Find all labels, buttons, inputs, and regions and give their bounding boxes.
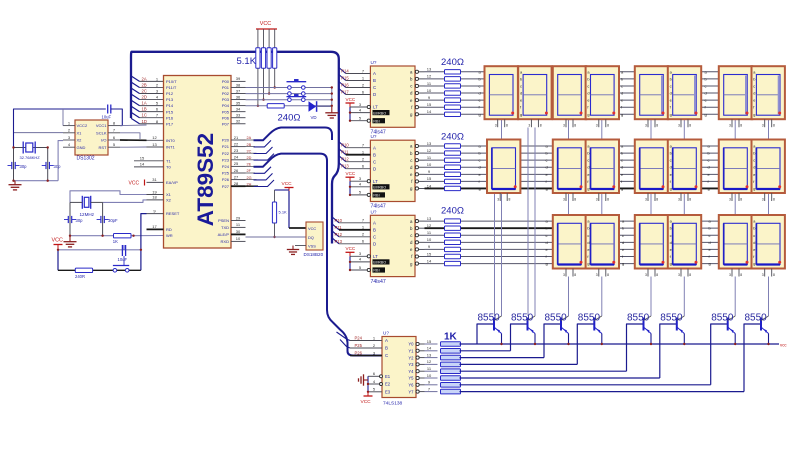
resistor 240ohm e row3 — [445, 247, 461, 251]
wire BCD input P11 U2 — [339, 149, 346, 155]
svg-text:3: 3 — [563, 124, 565, 128]
pin output Y1 74LS138 — [416, 349, 419, 352]
wire segment g row1 — [425, 113, 784, 115]
wire enable pins 74LS138 — [367, 376, 369, 392]
svg-text:e: e — [479, 98, 481, 103]
svg-text:74ls47: 74ls47 — [371, 279, 386, 285]
resistor 240ohm f row3 — [445, 254, 461, 258]
svg-text:I/O: I/O — [101, 138, 106, 143]
svg-text:3: 3 — [678, 198, 680, 202]
wire P0 key row 2 — [246, 93, 332, 95]
svg-text:3: 3 — [729, 273, 731, 277]
chip U2 AT89S52 body — [164, 76, 232, 249]
switch S3 key2 — [287, 96, 307, 98]
pin 5 DS1302 RST — [108, 146, 120, 148]
svg-text:INT0: INT0 — [166, 138, 175, 143]
wire digit column 5 — [650, 120, 652, 140]
pin output f U1 — [415, 106, 418, 109]
wire 12MHz left leg — [70, 201, 82, 203]
wire DS1302 VCC2 up — [62, 109, 64, 126]
svg-text:VCC: VCC — [308, 226, 316, 231]
wire P0 key row 1 — [246, 87, 332, 89]
svg-text:3: 3 — [678, 273, 680, 277]
svg-text:d: d — [520, 91, 522, 96]
wire segment b row3 — [425, 227, 554, 229]
svg-text:P15: P15 — [166, 109, 174, 114]
wire 12MHz right leg — [102, 202, 104, 235]
wire input A 74LS138 — [337, 332, 351, 341]
svg-text:3: 3 — [497, 198, 499, 202]
resistor 240ohm g row2 — [445, 186, 461, 190]
wire BCD input P12 U2 — [339, 156, 346, 162]
wire crystal right leg down — [47, 148, 49, 181]
pin 2 DS1302 X1 — [63, 132, 75, 134]
svg-text:b: b — [587, 151, 589, 156]
svg-text:8550: 8550 — [711, 313, 734, 324]
svg-text:25: 25 — [234, 161, 239, 166]
svg-text:P13: P13 — [341, 164, 349, 169]
svg-text:X1: X1 — [166, 192, 172, 197]
pin 26 MCU P25 — [231, 172, 246, 174]
svg-text:8: 8 — [740, 124, 742, 128]
resistor 240ohm a row3 — [445, 219, 461, 223]
pin output c U1 — [415, 84, 418, 87]
capacitor C1 30pF — [67, 216, 69, 223]
svg-text:c: c — [670, 233, 672, 238]
pin output d U1 — [415, 91, 418, 94]
svg-text:d: d — [479, 91, 481, 96]
wire DS1302 I/O to MCU INT0 — [120, 139, 147, 141]
svg-text:13: 13 — [427, 67, 432, 72]
display DS9 7-segment — [487, 140, 520, 194]
svg-text:c: c — [587, 158, 589, 163]
svg-text:VCC: VCC — [282, 181, 293, 187]
svg-text:8: 8 — [506, 124, 508, 128]
svg-text:g: g — [753, 186, 755, 191]
svg-text:A: A — [373, 145, 376, 150]
svg-text:Y6: Y6 — [408, 383, 414, 388]
svg-text:e: e — [622, 247, 624, 252]
svg-text:2G: 2G — [247, 176, 252, 180]
svg-text:e: e — [708, 172, 710, 177]
pin output e U2 — [415, 173, 418, 176]
wire DS1302 VCC1 right — [120, 124, 147, 127]
svg-text:8: 8 — [689, 124, 691, 128]
resistor RP1-1 5.1K pullup — [257, 29, 259, 48]
svg-text:e: e — [670, 98, 672, 103]
wire P1 slant 1B — [131, 106, 140, 112]
svg-text:Y0: Y0 — [408, 342, 414, 347]
chip U6 DS18B20 body — [306, 222, 323, 250]
svg-text:P25: P25 — [355, 343, 363, 348]
wire segment e row1 — [425, 99, 784, 101]
wire P2 slant 2H — [254, 180, 275, 187]
svg-text:DS18B20: DS18B20 — [304, 252, 324, 257]
transistor Q6 8550 — [676, 318, 678, 331]
svg-text:RXD: RXD — [221, 239, 230, 244]
svg-text:12: 12 — [427, 148, 432, 153]
pin output Y5 74LS138 — [416, 376, 419, 379]
wire segment d row3 — [425, 241, 784, 243]
svg-text:8: 8 — [574, 198, 576, 202]
wire key column ground — [331, 88, 333, 106]
resistor 240ohm d row2 — [445, 165, 461, 169]
power VCC 74LS138 E3 — [367, 392, 369, 396]
svg-text:e: e — [587, 247, 589, 252]
svg-text:e: e — [753, 98, 755, 103]
wire LT/RBI/RBO U1 — [349, 107, 351, 121]
resistor R4 5.1K pullup DS18B20 — [274, 190, 276, 202]
svg-text:RESET: RESET — [166, 211, 180, 216]
wire segment e row2 — [425, 173, 784, 175]
svg-text:240Ω: 240Ω — [441, 206, 464, 217]
svg-text:B: B — [385, 346, 388, 351]
svg-text:8: 8 — [773, 124, 775, 128]
wire input B 74LS138 — [340, 340, 350, 349]
svg-text:35: 35 — [236, 100, 241, 105]
display DS8 7-segment — [752, 66, 785, 119]
svg-text:SCLK: SCLK — [96, 130, 107, 135]
pin output b U1 — [415, 77, 418, 80]
svg-text:b: b — [753, 76, 755, 81]
svg-text:RBI: RBI — [373, 119, 379, 123]
display DS7 7-segment — [719, 66, 752, 119]
svg-text:Y2: Y2 — [408, 355, 414, 360]
wire BCD input P17 U1 — [339, 89, 346, 95]
capacitor C2 30pF — [100, 216, 102, 223]
svg-text:C: C — [373, 235, 376, 240]
svg-text:AT89S52: AT89S52 — [193, 133, 218, 226]
pin 11 MCU TXD — [231, 226, 246, 228]
wire crystal X1 route — [70, 191, 147, 203]
svg-text:d: d — [621, 165, 623, 170]
svg-text:15: 15 — [427, 176, 432, 181]
display DS16 7-segment — [553, 215, 586, 269]
svg-text:d: d — [753, 240, 755, 245]
pin output f U2 — [415, 180, 418, 183]
svg-text:P26: P26 — [355, 351, 363, 356]
svg-text:b: b — [670, 151, 672, 156]
svg-text:1K: 1K — [113, 239, 118, 244]
node crystal junctions — [12, 146, 14, 148]
svg-text:c: c — [520, 83, 522, 88]
wire BCD input P11 U3 — [332, 224, 339, 230]
svg-text:8550: 8550 — [545, 313, 568, 324]
resistor 240ohm f row1 — [445, 105, 461, 109]
wire base drive Y6 — [425, 384, 438, 386]
svg-text:b: b — [670, 76, 672, 81]
pin 10 MCU RXD — [231, 240, 246, 242]
svg-text:8: 8 — [574, 273, 576, 277]
svg-text:2C: 2C — [142, 89, 147, 94]
resistor 240ohm d row1 — [445, 91, 461, 95]
svg-text:D: D — [373, 242, 376, 247]
display DS5 7-segment — [635, 66, 668, 119]
wire segment c row3 — [425, 234, 784, 236]
display DS21 7-segment — [752, 215, 785, 269]
pin 15 MCU T1 — [134, 160, 164, 162]
resistor 240ohm b row1 — [445, 77, 461, 81]
wire digit column 7 — [734, 120, 736, 140]
svg-text:A: A — [373, 221, 376, 226]
svg-text:B: B — [373, 152, 376, 157]
svg-text:e: e — [546, 172, 548, 177]
pin output Y0 74LS138 — [416, 342, 419, 345]
resistor 1K Y2 — [441, 355, 461, 360]
svg-text:RBI: RBI — [373, 269, 379, 273]
svg-text:2D: 2D — [247, 156, 252, 160]
svg-text:g: g — [546, 186, 548, 191]
svg-text:28: 28 — [234, 181, 239, 186]
svg-text:8550: 8550 — [660, 313, 683, 324]
svg-text:8: 8 — [689, 273, 691, 277]
pin output g U1 — [415, 113, 418, 116]
svg-text:P22: P22 — [222, 151, 230, 156]
wire BCD input P13 U2 — [339, 163, 346, 169]
wire VCC rail reset — [58, 249, 141, 251]
svg-text:14: 14 — [427, 346, 432, 351]
display DS20 7-segment — [719, 215, 752, 269]
svg-text:d: d — [670, 165, 672, 170]
bus P1 top horizontal to 74LS47s — [137, 52, 339, 244]
svg-text:P17: P17 — [341, 90, 349, 95]
wire digit column 6 — [683, 120, 685, 140]
svg-text:8: 8 — [773, 273, 775, 277]
pin 13 MCU INT1 — [147, 146, 164, 148]
svg-text:30: 30 — [236, 229, 241, 234]
wire segment a row2 — [425, 145, 784, 147]
svg-text:d: d — [670, 91, 672, 96]
pin 25 MCU P24 — [231, 165, 246, 167]
svg-text:13: 13 — [427, 352, 432, 357]
svg-text:P07: P07 — [222, 121, 230, 126]
pin 19 MCU X1 — [147, 194, 164, 196]
resistor 240ohm a row2 — [445, 144, 461, 148]
svg-text:1D: 1D — [142, 119, 147, 124]
svg-text:X1: X1 — [77, 130, 83, 135]
wire crystal X2 route — [103, 200, 147, 203]
svg-text:13: 13 — [427, 141, 432, 146]
pin 21 MCU P20 — [231, 139, 246, 141]
svg-text:Y7: Y7 — [408, 389, 414, 394]
resistor 1K Y3 — [441, 362, 461, 367]
svg-text:e: e — [520, 98, 522, 103]
svg-text:30pF: 30pF — [108, 218, 118, 223]
svg-text:c: c — [479, 83, 481, 88]
svg-text:X2: X2 — [77, 138, 83, 143]
svg-text:U?: U? — [371, 60, 377, 65]
svg-text:13: 13 — [427, 216, 432, 221]
pin 4 DS1302 GND — [63, 146, 75, 148]
svg-text:b: b — [753, 226, 755, 231]
pin 22 MCU P21 — [231, 146, 246, 148]
svg-text:2H: 2H — [247, 182, 252, 186]
wire segment g row2 — [425, 187, 784, 189]
svg-text:21: 21 — [234, 135, 239, 140]
display DS13 7-segment — [668, 140, 701, 194]
resistor 1K Y6 — [441, 383, 461, 388]
ground for crystal caps — [14, 181, 16, 185]
wire VCC to DS18B20 — [288, 191, 290, 228]
svg-text:P04: P04 — [222, 103, 230, 108]
svg-text:P10/T: P10/T — [166, 79, 177, 84]
svg-text:240Ω: 240Ω — [441, 132, 464, 143]
resistor 240ohm c row2 — [445, 158, 461, 162]
svg-text:8: 8 — [540, 124, 542, 128]
svg-text:d: d — [587, 240, 589, 245]
svg-text:36: 36 — [236, 94, 241, 99]
svg-text:P02: P02 — [222, 91, 230, 96]
resistor 1K Y0 — [441, 342, 461, 347]
bus P2 lower arc to 74LS138 — [254, 154, 383, 356]
capacitor C6 10uF series — [107, 105, 109, 114]
resistor RP1-2 5.1K pullup — [263, 29, 265, 48]
svg-text:26: 26 — [234, 168, 239, 173]
svg-text:c: c — [753, 233, 755, 238]
display DS10 7-segment — [553, 140, 586, 194]
wire P2 slant 2D — [254, 154, 275, 161]
svg-text:LT: LT — [373, 105, 378, 110]
svg-text:c: c — [708, 158, 710, 163]
pin output a U3 — [415, 220, 418, 223]
svg-text:3: 3 — [762, 273, 764, 277]
svg-text:c: c — [621, 83, 623, 88]
svg-text:8: 8 — [740, 273, 742, 277]
svg-text:14: 14 — [427, 258, 432, 263]
svg-text:vcc: vcc — [780, 343, 787, 348]
svg-text:10: 10 — [427, 88, 432, 93]
wire VSS DS18B20 — [295, 245, 306, 247]
svg-text:P13: P13 — [335, 239, 343, 244]
svg-text:b: b — [479, 76, 481, 81]
svg-text:8: 8 — [656, 124, 658, 128]
transistor Q5 8550 — [643, 318, 645, 331]
svg-text:5.1K: 5.1K — [237, 56, 257, 67]
display DS12 7-segment — [635, 140, 668, 194]
wire DS1302 SCLK to MCU — [120, 133, 140, 139]
svg-text:c: c — [546, 233, 548, 238]
wire P1 slant 1A — [131, 100, 140, 106]
svg-text:VCC: VCC — [346, 246, 356, 251]
wire base drive Y4 — [425, 370, 438, 372]
svg-text:3: 3 — [495, 124, 497, 128]
pin 23 MCU P22 — [231, 152, 246, 154]
wire oscillator ground rail to MCU WR — [70, 235, 114, 237]
wire digit column 4 — [601, 120, 603, 140]
svg-text:T1: T1 — [166, 158, 171, 163]
svg-text:1A: 1A — [142, 101, 147, 106]
svg-text:ALE/P: ALE/P — [218, 232, 230, 237]
ground DS18B20 — [292, 246, 294, 250]
wire P1 slant 2B — [131, 82, 140, 88]
svg-text:P13: P13 — [166, 97, 174, 102]
svg-text:3: 3 — [645, 198, 647, 202]
svg-text:VCC2: VCC2 — [77, 123, 88, 128]
svg-text:RST: RST — [99, 145, 108, 150]
crystal Y2 32.768kHz — [22, 142, 24, 154]
svg-text:8: 8 — [773, 198, 775, 202]
wire BCD input P13 U3 — [332, 238, 339, 244]
svg-text:30p: 30p — [76, 218, 84, 223]
pin 3 DS1302 X2 — [63, 139, 75, 141]
pin output d U2 — [415, 166, 418, 169]
svg-text:e: e — [587, 172, 589, 177]
svg-text:17: 17 — [152, 224, 157, 229]
svg-text:g: g — [708, 186, 710, 191]
svg-text:38: 38 — [236, 82, 241, 87]
svg-text:RD: RD — [166, 227, 172, 232]
svg-text:3: 3 — [596, 198, 598, 202]
svg-text:3: 3 — [528, 124, 530, 128]
svg-text:b: b — [621, 151, 623, 156]
svg-text:37: 37 — [236, 88, 241, 93]
svg-text:18: 18 — [152, 195, 157, 200]
pin 35 MCU P04 — [231, 105, 246, 107]
wire cap ground rail — [14, 180, 59, 182]
pin 28 MCU P27 — [231, 185, 246, 187]
pin 33 MCU P06 — [231, 117, 246, 119]
pin 12 MCU INT0 — [147, 139, 164, 141]
svg-text:12: 12 — [152, 135, 157, 140]
svg-text:g: g — [670, 112, 672, 117]
resistor 240ohm a row1 — [445, 70, 461, 74]
svg-text:b: b — [520, 76, 522, 81]
capacitor C8 30pF — [45, 162, 47, 169]
svg-text:c: c — [705, 83, 707, 88]
display DS11 7-segment — [586, 140, 619, 194]
svg-text:2A: 2A — [142, 76, 147, 81]
switch S2 key1 — [287, 81, 307, 83]
svg-text:LT: LT — [373, 254, 378, 259]
resistor R1 240ohm LED — [267, 104, 284, 108]
svg-text:VCC: VCC — [346, 97, 356, 102]
ground for oscillator — [69, 236, 71, 242]
svg-text:8550: 8550 — [745, 313, 768, 324]
svg-text:b: b — [546, 226, 548, 231]
wire BCD input P12 U3 — [332, 231, 339, 237]
display DS18 7-segment — [635, 215, 668, 269]
wire segment f row3 — [425, 256, 784, 258]
wire segment d row2 — [425, 166, 784, 168]
svg-text:3: 3 — [563, 273, 565, 277]
svg-text:g: g — [479, 186, 481, 191]
wire base drive Y3 — [425, 363, 438, 365]
resistor 240ohm d row3 — [445, 240, 461, 244]
svg-text:VCC1: VCC1 — [96, 123, 107, 128]
wire 10uF top net — [14, 109, 106, 147]
resistor 240ohm f row2 — [445, 179, 461, 183]
svg-text:8: 8 — [656, 198, 658, 202]
pin output b U2 — [415, 151, 418, 154]
svg-text:g: g — [621, 112, 623, 117]
svg-text:12: 12 — [427, 359, 432, 364]
svg-text:e: e — [709, 247, 711, 252]
svg-text:g: g — [479, 112, 481, 117]
svg-text:P23: P23 — [222, 157, 230, 162]
wire segment a row3 — [425, 220, 784, 222]
wire BCD input P14 U1 — [339, 68, 346, 74]
svg-text:P03: P03 — [222, 97, 230, 102]
svg-text:E1: E1 — [385, 374, 391, 379]
svg-text:30p: 30p — [20, 164, 28, 169]
pin 9 MCU RESET — [147, 213, 164, 215]
wire base drive Y1 — [425, 350, 438, 352]
svg-text:WR: WR — [166, 233, 173, 238]
svg-text:e: e — [546, 247, 548, 252]
svg-text:U?: U? — [371, 209, 377, 214]
svg-text:b: b — [708, 151, 710, 156]
pin output d U3 — [415, 241, 418, 244]
